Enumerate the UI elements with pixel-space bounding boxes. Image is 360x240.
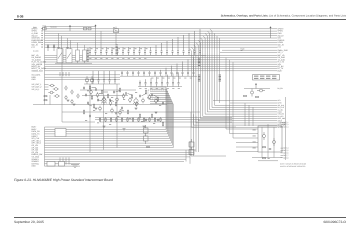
wire tick T2	[62, 72, 64, 76]
wire bundle continuation 3	[195, 116, 197, 152]
resistor R500	[89, 85, 90, 90]
capacitor C401	[127, 71, 129, 76]
capacitor C306	[122, 47, 124, 55]
wire below module	[258, 160, 278, 162]
wire bundle bottom rail	[191, 155, 226, 157]
wire module output 3	[281, 126, 284, 128]
wire bus B net SB9600_BUS	[45, 70, 278, 72]
wire bus B net VOL_WIPER	[45, 63, 278, 65]
resistor R30	[244, 95, 247, 96]
wire net VIP_IN_1	[45, 89, 49, 91]
capacitor C308	[133, 47, 135, 55]
capacitor C404	[143, 71, 145, 76]
value label v5	[147, 97, 149, 100]
value label v15	[109, 123, 111, 126]
capacitor C304	[111, 47, 113, 55]
resistor R507	[115, 102, 116, 107]
wire vertical (x62)	[61, 48, 63, 122]
wire net VIP_1	[220, 52, 277, 54]
ground rail (cap row 4)	[84, 83, 120, 85]
value label v8	[105, 112, 107, 115]
ground G5	[103, 126, 106, 128]
wire lower net DATA_RX	[45, 131, 167, 133]
wire lower net GND	[45, 165, 81, 167]
ground G2	[115, 113, 118, 115]
transistor Q9	[116, 97, 119, 103]
wire vertical V12	[230, 60, 259, 134]
wire mid bus 4	[100, 121, 232, 123]
value label v13	[85, 119, 87, 122]
wire link L7	[98, 99, 102, 102]
wire net R15	[86, 76, 88, 84]
wire routed net S5	[150, 95, 170, 138]
transistor Q16	[99, 106, 102, 112]
wire drop (x95.5)	[95, 29, 97, 47]
value labels (cap bank 1)	[89, 57, 146, 60]
wire routed net S7	[150, 100, 171, 144]
capacitor C702	[85, 93, 87, 96]
diode CR2	[53, 44, 55, 51]
ground G6	[123, 129, 126, 131]
value label v9	[117, 115, 119, 118]
resistor R205	[127, 117, 128, 122]
wire bus A net SPKR-	[45, 30, 278, 32]
wire lower net SCI_CLK	[45, 138, 170, 140]
transistor Q31 (large)	[133, 97, 139, 104]
capacitor C500	[139, 80, 141, 86]
capacitor C400	[121, 71, 123, 76]
wire drop (x101)	[100, 31, 102, 47]
wire vertical right edge	[285, 97, 287, 160]
wire lower net OPT_SEL1	[45, 140, 171, 142]
capacitor C318	[188, 33, 190, 55]
resistor R211	[160, 117, 161, 122]
transistor Q43	[65, 95, 67, 100]
resistor R208	[143, 117, 144, 122]
wire link L8	[110, 100, 114, 102]
capacitor C90	[269, 149, 271, 150]
svg-text:Figure 8-23. HLN6466B/E High: Figure 8-23. HLN6466B/E High Power Stand…	[14, 178, 113, 182]
value label R45	[268, 157, 270, 160]
wire Q-cluster bus	[33, 104, 167, 106]
wire lower net GP_IO4	[45, 151, 195, 153]
wire lower net GP_IO2	[45, 147, 174, 149]
ground rail (cap bank 1)	[88, 54, 206, 56]
capacitor C705	[125, 92, 127, 95]
wire scatter run 2	[82, 95, 128, 97]
jumper block W2	[59, 162, 65, 167]
wire mid bus 1	[62, 111, 200, 113]
capacitor C310	[144, 47, 146, 55]
wire bus B net BOOT_RX	[45, 65, 278, 67]
ground G9	[73, 104, 76, 106]
resistor R31	[256, 96, 259, 97]
svg-text:BUS+: BUS+	[278, 69, 283, 72]
capacitor C709	[139, 94, 141, 97]
capacitor C710	[151, 93, 153, 96]
resistor R502	[91, 95, 92, 100]
capacitor C412	[187, 59, 189, 76]
capacitor C405	[149, 71, 151, 76]
resistor R501	[101, 90, 102, 95]
wire lower net SPARE2	[45, 161, 185, 163]
wire vertical V13	[233, 62, 258, 138]
transistor Q30 (large)	[101, 97, 107, 104]
resistor R206	[132, 117, 133, 122]
wire vertical bus V1 with corner	[210, 29, 277, 108]
capacitor C413	[193, 57, 195, 76]
wire vertical bus V8 with corner	[194, 45, 277, 123]
wire bus A net MIC_HI	[45, 44, 278, 46]
capacitor C711	[162, 101, 164, 104]
wire vertical bus V7 with corner	[196, 43, 277, 121]
footer rule	[14, 217, 346, 219]
capacitor C315	[172, 39, 174, 55]
wire bus B net MIC_LO	[45, 54, 278, 56]
wire link L9	[88, 105, 92, 107]
capacitor C309	[139, 47, 141, 55]
capacitor C708	[121, 106, 123, 109]
wire bus B net FLAT_TX_AUDIO	[45, 61, 278, 63]
wire net SCI_DATA	[45, 74, 121, 76]
wire module output 1	[281, 121, 284, 123]
power symbol subckt	[255, 83, 257, 89]
wire link L5	[142, 94, 147, 97]
capacitor C700	[83, 86, 85, 89]
transistor Q7	[103, 96, 106, 102]
resistor R40	[263, 147, 266, 148]
wire routed net S3	[150, 91, 168, 134]
wire bundle continuation 1	[190, 112, 192, 156]
capacitor C502	[150, 78, 152, 87]
wire into module pin 5	[236, 146, 258, 148]
wire subckt top	[244, 88, 270, 90]
value label v4	[135, 91, 137, 94]
svg-text:SB9600_BUS: SB9600_BUS	[32, 69, 44, 72]
wire into module pin 4	[236, 142, 258, 144]
value label v0	[87, 90, 89, 93]
wire routed net S6	[150, 98, 171, 141]
label W5	[146, 146, 150, 149]
svg-text:TO RADIO: TO RADIO	[50, 27, 58, 29]
wire subckt mid	[213, 100, 277, 102]
diode CR1	[47, 44, 49, 51]
ground (bottom)	[71, 165, 79, 168]
transistor Q17	[111, 108, 114, 114]
resistor R209	[149, 117, 150, 122]
designator column (C-list 2)	[116, 44, 118, 55]
power symbol B+ (right)	[270, 26, 272, 38]
ground G7	[143, 126, 146, 128]
resistor R11	[44, 100, 47, 101]
wire top stub	[45, 26, 97, 28]
wire stub bottom 3	[65, 157, 67, 164]
designator labels (cap bank 1)	[91, 47, 148, 50]
capacitor C410	[176, 63, 178, 76]
note text bottom right	[280, 163, 306, 168]
value label v2	[111, 96, 113, 99]
value labels (module)	[253, 130, 256, 149]
wire link L11	[135, 103, 137, 106]
ground G3	[135, 108, 138, 110]
resistor R10	[44, 96, 47, 97]
capacitor C604	[114, 71, 116, 84]
resistor R503	[107, 94, 108, 99]
wire vertical bus V5 with corner	[201, 38, 278, 116]
transistor Q3	[48, 91, 54, 94]
capacitor C402	[132, 71, 134, 76]
capacitor C320	[199, 29, 201, 55]
zener VR402	[84, 27, 87, 30]
transistor Q14	[148, 94, 151, 100]
wire vertical bundle end	[189, 141, 191, 164]
connector J3 spine	[44, 127, 46, 166]
transistor Q13	[142, 98, 145, 104]
wire vertical (x117)	[116, 84, 118, 147]
transistor Q1	[49, 84, 55, 87]
zener VR401	[42, 25, 46, 30]
capacitor C301	[95, 47, 97, 55]
wire module output 6	[281, 152, 284, 154]
wire link L12	[103, 103, 105, 105]
capacitor C408	[165, 68, 167, 76]
wire lower net KEYFAIL	[45, 163, 81, 165]
capacitor C703	[97, 98, 99, 101]
capacitor C704	[113, 90, 115, 93]
value label v6	[159, 104, 161, 107]
wire vertical V14	[244, 103, 246, 126]
power symbol SW_B+ (left)	[69, 25, 71, 31]
capacitor C300	[89, 47, 91, 55]
capacitor C504	[161, 76, 163, 87]
wire subckt low	[230, 102, 277, 104]
svg-text:NU: NU	[241, 50, 243, 52]
transistor Q10	[122, 93, 125, 99]
wire link L2	[104, 91, 109, 93]
value label v7	[93, 109, 95, 112]
wire link L6	[154, 95, 159, 98]
resistor R509	[145, 90, 146, 95]
resistor R505	[131, 94, 132, 99]
filter FL100	[76, 43, 80, 64]
wire into module pin 6	[236, 151, 258, 153]
wire vertical bus V6 with corner	[198, 40, 277, 118]
capacitor C713	[145, 118, 147, 121]
wire link L10	[120, 110, 124, 112]
value label v10	[129, 117, 131, 120]
wire lower net BUS+	[45, 126, 237, 128]
capacitor C601	[98, 71, 100, 84]
value label v14	[97, 122, 99, 125]
ground rail (cap bank 3)	[138, 86, 182, 88]
wire module vertical 1	[261, 127, 263, 158]
svg-text:6881096C73-O: 6881096C73-O	[323, 220, 346, 224]
wire lower net GP_IO1	[45, 144, 173, 146]
resistor R45	[263, 158, 266, 159]
network U5	[189, 139, 194, 147]
wire tick T4	[68, 72, 70, 76]
wire bus A net PTT	[45, 46, 278, 48]
ground rail (cap bank 2)	[120, 75, 197, 77]
network U6	[189, 147, 194, 155]
network U4	[144, 133, 149, 144]
resistor R506	[93, 104, 94, 109]
designator column (C-list 4)	[198, 75, 200, 82]
svg-text:NU: NU	[113, 27, 115, 29]
resistor R207	[138, 117, 139, 122]
transistor Q15	[155, 98, 158, 104]
wire bus B net BOOT_TX_DATA	[45, 68, 278, 70]
power symbol A+ (mid)	[95, 24, 97, 28]
capacitor C603	[109, 71, 111, 84]
capacitor C503	[156, 77, 158, 87]
wire vertical V16	[252, 107, 254, 126]
wire net RSSI	[45, 76, 121, 78]
wire routed net S8	[150, 102, 172, 146]
transistor Q5	[90, 89, 93, 95]
wire net VIP_OUT_1	[45, 84, 49, 86]
capacitor C701	[95, 88, 97, 91]
wire net GND	[45, 79, 121, 81]
transistor Q40	[65, 86, 67, 91]
wire net VIP_OUT_2	[45, 86, 49, 88]
module U10 outline	[258, 126, 282, 152]
resistor R204	[121, 117, 122, 122]
wire mid bus 3	[95, 119, 232, 121]
wire link L1	[92, 87, 97, 89]
wire bus A net EMERGENCY	[45, 39, 278, 41]
resistor R513	[151, 114, 152, 119]
wire tick T1	[59, 72, 61, 76]
wire drop (x116)	[115, 33, 117, 45]
capacitor C506	[172, 73, 174, 86]
wire routed net S2	[150, 89, 167, 132]
wire vertical V18	[216, 36, 218, 101]
transistor Q22	[263, 132, 266, 140]
wire bus A net SW_B+	[45, 35, 278, 37]
wire vertical (x90)	[89, 84, 91, 152]
resistor R511	[83, 110, 84, 115]
wire vertical bus V2 with corner	[207, 31, 277, 110]
connector J2 spine	[44, 27, 46, 105]
wire lower net RESET	[45, 135, 169, 137]
ground G1	[95, 108, 98, 110]
header rule	[14, 19, 346, 21]
capacitor C302	[100, 47, 102, 55]
capacitor C317	[183, 35, 185, 55]
wire lower net SPARE1	[45, 158, 187, 160]
transistor Q42	[77, 94, 79, 99]
svg-text:8-36: 8-36	[17, 15, 24, 19]
wire stub bottom 2	[62, 157, 64, 164]
wire bundle continuation 4	[198, 119, 200, 152]
wire net SWB+_SNS	[222, 49, 277, 51]
transistor Q6	[96, 92, 99, 98]
svg-text:VR401: VR401	[42, 25, 46, 27]
resistor R512	[139, 114, 140, 119]
wire vertical bus V3 with corner	[205, 33, 277, 112]
filter FL101	[83, 45, 87, 63]
capacitor C505	[167, 75, 169, 87]
svg-text:GND: GND	[32, 165, 37, 168]
designator column (C-list 1)	[87, 49, 89, 62]
note frame NOTE1	[253, 75, 280, 80]
wire bus B net TX_AUDIO	[45, 59, 278, 61]
wire routed net S9	[150, 104, 173, 148]
wire module output 4	[281, 147, 284, 149]
wire bus A net SPKR+	[45, 28, 278, 30]
capacitor C314	[166, 41, 168, 55]
capacitor C600	[92, 71, 94, 84]
svg-text:GND: GND	[32, 78, 37, 81]
wire vertical bundle end 2	[185, 150, 187, 162]
wire stub bottom 1	[59, 157, 61, 164]
capacitor C501	[145, 79, 147, 86]
resistor R210	[154, 117, 155, 122]
resistor R15	[86, 79, 89, 81]
wire link L3	[116, 91, 121, 93]
capacitor C706	[87, 101, 89, 104]
designator column (C-list 5)	[219, 75, 221, 82]
transistor Q4	[54, 95, 60, 98]
wire routed net S4	[150, 93, 169, 136]
capacitor C303	[106, 47, 108, 55]
capacitor C311	[150, 47, 152, 55]
wire stub bottom 4	[68, 157, 70, 164]
transistor Q18	[119, 110, 122, 116]
value labels (cap bank 2)	[151, 77, 192, 80]
capacitor C602	[103, 71, 105, 84]
wire net R16	[91, 76, 93, 84]
wire lower net DATA_TX	[45, 133, 168, 135]
capacitor C712	[89, 114, 91, 117]
capacitor C707	[109, 98, 111, 101]
wire bundle continuation 2	[193, 114, 195, 156]
capacitor C407	[160, 70, 162, 76]
value label v3	[123, 98, 125, 101]
resistor R504	[119, 88, 120, 93]
resistor R16	[91, 79, 94, 81]
resistor R200	[99, 117, 100, 122]
transistor Q8	[109, 100, 112, 106]
wire bus A net A_GND	[45, 32, 278, 34]
capacitor C403	[138, 71, 140, 76]
resistor R202	[110, 117, 111, 122]
wire vertical bus V9 with corner	[191, 47, 277, 125]
wire module output 2	[281, 124, 284, 126]
svg-text:R1 1/8W: R1 1/8W	[33, 51, 39, 53]
filter FL102	[55, 129, 66, 137]
resistor R510	[157, 97, 158, 102]
wire routed net S1	[150, 87, 166, 129]
wire module output 7	[281, 154, 284, 156]
value label v12	[153, 122, 155, 125]
wire vertical (x103.5)	[103, 84, 105, 150]
wire lower net EMERG_SW	[45, 154, 193, 156]
resistor R201	[105, 117, 106, 122]
value label v11	[141, 120, 143, 123]
ground G8	[67, 100, 70, 102]
wire vertical bus V10 with corner	[189, 48, 277, 127]
wire vertical V11	[226, 58, 258, 129]
label R120 NU	[241, 47, 245, 52]
value label v1	[99, 92, 101, 95]
jumper block W1	[47, 162, 55, 167]
wire module bottom rail	[252, 157, 282, 159]
wire lower net BUSY	[45, 128, 167, 130]
wire mid bus 2	[95, 116, 232, 118]
resistor R203	[116, 117, 117, 122]
